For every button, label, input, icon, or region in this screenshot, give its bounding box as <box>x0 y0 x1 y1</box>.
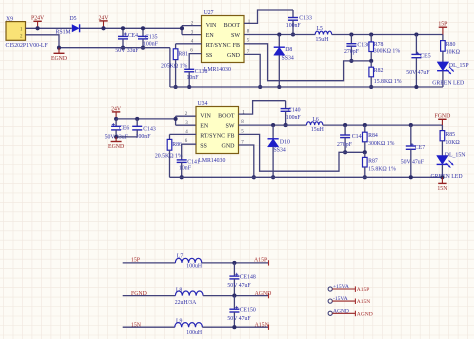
svg-text:24V: 24V <box>99 15 110 21</box>
svg-text:15uH: 15uH <box>316 37 330 43</box>
inductor L9 <box>175 318 203 327</box>
svg-text:SS34: SS34 <box>274 148 286 154</box>
svg-text:D5: D5 <box>70 16 77 22</box>
inductor L8 <box>175 287 203 295</box>
op-amp U1 regulator U27 LMR14030 <box>202 10 245 63</box>
pin FB of U27 <box>233 43 240 49</box>
junction 24V stage2 <box>114 117 118 121</box>
junction 15N <box>440 175 444 179</box>
pin 1 of X9 <box>20 28 23 33</box>
wire pin3 stub U27 <box>182 30 202 35</box>
svg-text:100uH: 100uH <box>186 263 203 269</box>
value 300KOhm of R78 <box>374 49 401 55</box>
wire pin6 stub U27 to C138 <box>189 49 201 70</box>
capacitor CE6 <box>111 119 129 137</box>
svg-text:15.8KΩ 1%: 15.8KΩ 1% <box>374 79 402 85</box>
svg-text:22uH/3A: 22uH/3A <box>175 300 197 306</box>
pin EN of U34 <box>200 124 209 130</box>
value 100nF of C133 <box>286 23 302 29</box>
resistor R82 <box>369 61 384 87</box>
junction C136 top <box>349 32 353 36</box>
wire pin2 stub U34 <box>176 112 196 117</box>
svg-text:100uH: 100uH <box>186 330 203 336</box>
svg-text:EGND: EGND <box>51 56 67 62</box>
svg-text:C138: C138 <box>195 69 208 75</box>
regulator U34 LMR14030 <box>196 101 239 154</box>
junction CE4 bottom <box>121 46 125 50</box>
svg-text:D8: D8 <box>285 47 292 53</box>
svg-text:VIN: VIN <box>206 23 217 29</box>
value 10nF of C141 <box>179 166 192 172</box>
svg-text:50V 47uF: 50V 47uF <box>227 316 251 322</box>
junction C135 bottom <box>141 46 145 50</box>
value 50V 47uF of CE5 <box>406 70 430 76</box>
wire pin2 stub U27 <box>182 21 202 26</box>
svg-text:-15VA: -15VA <box>333 296 348 302</box>
pin number 5 of U34 <box>241 129 244 134</box>
node VIN tie U27 <box>180 26 184 35</box>
svg-text:270pF: 270pF <box>344 49 360 55</box>
pin BOOT of U27 <box>224 23 241 29</box>
capacitor CE5 <box>411 35 430 88</box>
svg-text:RT/SYNC: RT/SYNC <box>206 43 231 49</box>
pin RT/SYNC of U34 <box>200 134 225 140</box>
net label 15P <box>131 257 140 263</box>
node AGND port <box>328 308 373 317</box>
junction C140 bottom on SW <box>284 123 288 127</box>
value 22uH/3A of L8 <box>175 300 197 306</box>
pin number 8 of U27 <box>247 30 250 35</box>
connector X9 <box>6 16 49 49</box>
svg-text:A15P: A15P <box>254 258 267 264</box>
svg-text:U27: U27 <box>204 10 214 16</box>
junction C136 bottom <box>349 59 353 63</box>
svg-text:SS34: SS34 <box>282 56 294 62</box>
pin number 7 of U34 <box>241 140 244 145</box>
wire X9 pin1 to D5 anode <box>26 27 72 29</box>
svg-text:P24V: P24V <box>31 16 45 22</box>
junction CE5 bottom <box>414 85 418 89</box>
svg-text:100nF: 100nF <box>286 23 302 29</box>
svg-text:100nF: 100nF <box>286 115 302 121</box>
junction R87 bottom <box>363 175 367 179</box>
svg-text:R82: R82 <box>374 68 384 74</box>
value GREEN LED of DL_15P <box>432 80 464 86</box>
diode D10 <box>268 125 290 177</box>
pin SW of U27 <box>231 33 240 39</box>
value 15.8KOhm of R82 <box>374 79 402 85</box>
pin VIN of U27 <box>206 23 217 29</box>
junction CE4 top <box>121 26 125 30</box>
pin number 7 of U27 <box>247 50 250 55</box>
junction C133 bottom on SW <box>291 32 295 36</box>
junction CE148 CE150 <box>232 294 236 298</box>
wire BOOT route U34 <box>239 101 286 114</box>
svg-text:100nF: 100nF <box>136 134 152 140</box>
svg-text:R84: R84 <box>368 133 378 139</box>
wire input ground stage2 <box>116 136 137 138</box>
svg-text:EN: EN <box>206 33 215 39</box>
svg-text:C141: C141 <box>187 159 200 165</box>
svg-text:C143: C143 <box>143 126 156 132</box>
wire L9 to A15N <box>202 326 268 328</box>
junction R81 bottom <box>174 85 178 89</box>
pin RT/SYNC of U27 <box>206 43 231 49</box>
resistor R85 <box>440 125 455 155</box>
wire BOOT route U27 <box>244 10 293 23</box>
resistor R86 <box>167 134 182 177</box>
wire GND route U34 <box>239 145 254 177</box>
power port FGND <box>435 114 451 125</box>
junction C143 top <box>135 117 139 121</box>
capacitor CE7 <box>406 125 425 177</box>
pin SS of U34 <box>200 143 207 149</box>
power port 15P <box>438 22 447 35</box>
value 100uH of L9 <box>186 330 203 336</box>
capacitor C136 <box>346 35 370 61</box>
svg-text:270pF: 270pF <box>337 142 353 148</box>
pin number 1 of U27 <box>248 20 251 25</box>
svg-text:+15VA: +15VA <box>333 284 349 290</box>
svg-text:L9: L9 <box>176 318 183 324</box>
svg-text:SS: SS <box>200 143 207 149</box>
junction P24V <box>36 26 40 30</box>
junction D8 cathode <box>277 32 281 36</box>
capacitor C144 <box>340 125 364 152</box>
pin SS of U27 <box>206 53 213 59</box>
svg-text:300KΩ 1%: 300KΩ 1% <box>368 141 395 147</box>
svg-text:CI5202P1V00-LF: CI5202P1V00-LF <box>6 43 49 49</box>
capacitor C138 <box>184 69 207 87</box>
pin VIN of U34 <box>200 114 211 120</box>
capacitor C140 <box>281 101 301 125</box>
capacitor C133 <box>288 10 312 35</box>
resistor R81 <box>173 44 188 87</box>
svg-text:10KΩ: 10KΩ <box>446 49 461 55</box>
wire X9 pin2 to ground <box>26 35 60 48</box>
inductor L7 <box>175 253 201 263</box>
svg-text:GND: GND <box>222 143 236 149</box>
pin GND of U27 <box>227 53 241 59</box>
wire 15P output rail <box>332 34 443 36</box>
svg-text:RT/SYNC: RT/SYNC <box>200 134 225 140</box>
wire 15N to L9 <box>123 326 175 328</box>
value SS34 of D8 <box>282 56 294 62</box>
svg-text:VIN: VIN <box>200 114 211 120</box>
value LMR14030 of U34 <box>198 158 225 164</box>
svg-text:SS: SS <box>206 53 213 59</box>
junction FB divider <box>369 59 373 63</box>
svg-text:AGND: AGND <box>357 311 373 317</box>
svg-text:20.5KΩ 1%: 20.5KΩ 1% <box>155 154 183 160</box>
svg-text:FGND: FGND <box>435 114 451 120</box>
svg-text:A15P: A15P <box>357 287 370 293</box>
capacitor C135 <box>138 28 158 47</box>
svg-text:L8: L8 <box>176 287 183 293</box>
svg-text:X9: X9 <box>6 16 13 22</box>
net label AGND right <box>255 291 272 298</box>
resistor R80 <box>441 35 456 62</box>
svg-text:FB: FB <box>233 43 240 49</box>
svg-text:CE7: CE7 <box>415 145 425 151</box>
capacitor C143 <box>132 119 156 137</box>
value 50V 47uF of CE7 <box>401 160 425 166</box>
wire pin3 stub U34 <box>176 121 196 126</box>
svg-text:C140: C140 <box>288 108 301 114</box>
svg-text:24V: 24V <box>111 106 122 112</box>
capacitor CE150 <box>229 296 256 328</box>
svg-text:205KΩ 1%: 205KΩ 1% <box>161 64 188 70</box>
value 50V 47uF of CE148 <box>227 283 251 289</box>
svg-text:A15N: A15N <box>357 299 370 305</box>
pin BOOT of U34 <box>218 114 235 120</box>
junction CE5 top <box>414 32 418 36</box>
junction GND drop <box>258 85 262 89</box>
net label A15N <box>255 323 270 330</box>
svg-text:L7: L7 <box>177 253 184 259</box>
junction R78 top <box>369 32 373 36</box>
junction CE7 bottom <box>409 175 413 179</box>
value 100nF of C135 <box>143 41 159 47</box>
svg-text:10nF: 10nF <box>187 75 200 81</box>
pin 2 of X9 <box>20 34 23 39</box>
wire 15P to L7 <box>123 262 176 264</box>
wire L8 to AGND <box>203 295 268 297</box>
capacitor CE148 <box>229 263 256 296</box>
svg-text:300KΩ 1%: 300KΩ 1% <box>374 49 401 55</box>
svg-text:15P: 15P <box>438 22 447 28</box>
node VIN tie U34 <box>174 116 178 125</box>
svg-text:50V 33uF: 50V 33uF <box>115 48 139 54</box>
resistor R87 <box>363 152 378 177</box>
junction C138 bottom <box>187 85 191 89</box>
wire 24V rail stage2 <box>116 118 176 120</box>
wire D5 cathode to U27 VIN tie <box>80 27 182 29</box>
junction EGND stage2 <box>114 135 118 139</box>
power port EGND stage2 <box>108 137 124 150</box>
svg-text:C135: C135 <box>145 35 158 41</box>
value 100nF of C140 <box>286 115 302 121</box>
wire 15N rail stage2 <box>170 176 443 178</box>
svg-text:EGND: EGND <box>108 144 124 150</box>
junction EGND <box>57 46 61 50</box>
junction R84 top <box>363 123 367 127</box>
value 100nF of C143 <box>136 134 152 140</box>
svg-text:10nF: 10nF <box>179 166 192 172</box>
power port 15N <box>437 177 448 192</box>
svg-text:R78: R78 <box>374 42 384 48</box>
svg-text:DL_15N: DL_15N <box>445 153 466 159</box>
value 15uH of L5 <box>316 37 330 43</box>
svg-text:DL_15P: DL_15P <box>449 63 469 69</box>
wire FB route U27 <box>244 44 371 81</box>
value 50V 47uF of CE150 <box>227 316 251 322</box>
value SS34 of D10 <box>274 148 286 154</box>
value 15.8KOhm of R87 <box>368 166 396 172</box>
net label FGND <box>131 291 147 297</box>
svg-text:CE6: CE6 <box>119 126 129 132</box>
svg-text:CE150: CE150 <box>240 307 256 313</box>
svg-text:R87: R87 <box>368 159 378 165</box>
svg-text:L5: L5 <box>317 26 324 32</box>
capacitor CE4 <box>118 28 138 47</box>
power port 24V stage2 <box>111 106 122 119</box>
junction R82 bottom <box>369 85 373 89</box>
value 50V 33uF of CE4 <box>115 48 139 54</box>
svg-text:SW: SW <box>226 124 235 130</box>
value LMR14030 of U27 <box>204 67 231 73</box>
wire SW to inductor L6 <box>239 124 307 126</box>
value RS1M of D5 <box>56 29 71 35</box>
svg-text:15uH: 15uH <box>311 127 325 133</box>
svg-text:50V 47uF: 50V 47uF <box>401 160 425 166</box>
inductor L6 <box>306 117 322 125</box>
junction D8 anode <box>277 85 281 89</box>
svg-text:C133: C133 <box>299 16 312 22</box>
junction CE7 top <box>409 123 413 127</box>
wire EGND rail stage1 <box>170 86 443 88</box>
junction C144 top <box>343 123 347 127</box>
svg-text:100nF: 100nF <box>143 41 159 47</box>
svg-text:GND: GND <box>227 53 241 59</box>
wire pin6 stub U34 to C141 <box>182 139 196 160</box>
power port P24V <box>31 16 45 29</box>
diode D5 <box>70 16 80 32</box>
svg-text:LMR14030: LMR14030 <box>198 158 225 164</box>
wire input ground rail <box>59 47 170 49</box>
junction GND drop stage2 <box>252 175 256 179</box>
svg-text:U34: U34 <box>198 101 208 107</box>
svg-text:GREEN LED: GREEN LED <box>432 80 464 86</box>
value 100uH of L7 <box>186 263 203 269</box>
junction FB divider stage2 <box>363 150 367 154</box>
svg-text:SW: SW <box>231 33 240 39</box>
junction D10 cathode <box>271 123 275 127</box>
wire FB route U34 <box>239 134 365 171</box>
wire ground drop to EGND rail <box>169 48 171 87</box>
pin EN of U27 <box>206 33 215 39</box>
svg-text:L6: L6 <box>312 117 319 123</box>
value GREEN LED of DL_15N <box>431 174 463 180</box>
junction C135 top <box>141 26 145 30</box>
junction C144 bottom <box>343 150 347 154</box>
junction CE150 bottom <box>232 325 236 329</box>
diode D8 <box>274 35 293 88</box>
pin SW of U34 <box>226 124 235 130</box>
value 270pF of C144 <box>337 142 353 148</box>
svg-text:R86: R86 <box>172 142 182 148</box>
svg-text:CE148: CE148 <box>240 274 256 280</box>
value 20.5KOhm of R86 <box>155 154 183 160</box>
svg-text:BOOT: BOOT <box>224 23 241 29</box>
junction C141 bottom <box>180 175 184 179</box>
wire L7 to A15P <box>202 262 269 264</box>
svg-text:C136: C136 <box>357 43 370 49</box>
svg-text:CE5: CE5 <box>420 54 430 60</box>
value 10KOhm of R80 <box>446 49 461 55</box>
junction D10 anode <box>271 175 275 179</box>
LED DL_15N <box>437 153 467 178</box>
wire FGND to L8 <box>123 295 176 297</box>
resistor R78 <box>369 35 384 61</box>
svg-text:GREEN LED: GREEN LED <box>431 174 463 180</box>
svg-text:15N: 15N <box>437 186 448 192</box>
svg-text:15.8KΩ 1%: 15.8KΩ 1% <box>368 166 396 172</box>
junction CE148 top <box>232 261 236 265</box>
junction 24V <box>101 26 105 30</box>
value 10KOhm of R85 <box>445 140 460 146</box>
svg-text:FB: FB <box>227 134 234 140</box>
svg-text:50V 47uF: 50V 47uF <box>406 70 430 76</box>
svg-text:EN: EN <box>200 124 209 130</box>
net label 15N <box>131 323 142 329</box>
svg-text:AGND: AGND <box>333 308 349 314</box>
svg-text:LMR14030: LMR14030 <box>204 67 231 73</box>
svg-text:R85: R85 <box>445 132 455 138</box>
wire FGND rail stage2 <box>323 124 443 126</box>
value 10nF of C138 <box>187 75 200 81</box>
net label A15P <box>254 258 269 266</box>
value 205KOhm of R81 <box>161 64 188 70</box>
svg-text:R80: R80 <box>446 42 456 48</box>
wire pin4 stub U34 to R86 <box>170 130 197 135</box>
svg-text:D10: D10 <box>280 140 290 146</box>
pin number 5 of U27 <box>247 39 250 44</box>
svg-text:CE4: CE4 <box>128 33 138 39</box>
pin number 1 of U34 <box>242 110 245 115</box>
svg-text:A15N: A15N <box>255 323 270 329</box>
inductor L5 <box>315 26 331 35</box>
svg-text:R81: R81 <box>178 52 188 58</box>
wire SW to inductor L5 <box>244 34 315 36</box>
resistor R84 <box>363 125 378 152</box>
svg-text:AGND: AGND <box>255 291 272 297</box>
power port EGND input <box>51 48 67 62</box>
value 270pF of C136 <box>344 49 360 55</box>
pin number 8 of U34 <box>241 120 244 125</box>
pin FB of U34 <box>227 134 234 140</box>
value 50V 33uF of CE6 <box>105 135 129 141</box>
svg-text:BOOT: BOOT <box>218 114 235 120</box>
power port 24V <box>99 15 110 28</box>
capacitor C141 <box>177 159 200 177</box>
value 15uH of L6 <box>311 127 325 133</box>
svg-text:50V 47uF: 50V 47uF <box>227 283 251 289</box>
pin GND of U34 <box>222 143 236 149</box>
svg-text:10KΩ: 10KΩ <box>445 140 460 146</box>
node -15VA port <box>328 296 370 305</box>
wire GND route U27 <box>244 54 260 87</box>
wire pin4 stub U27 to R81 <box>176 40 202 45</box>
value 300KOhm of R84 <box>368 141 395 147</box>
LED DL_15P <box>437 62 468 87</box>
node +15VA port <box>328 284 369 293</box>
